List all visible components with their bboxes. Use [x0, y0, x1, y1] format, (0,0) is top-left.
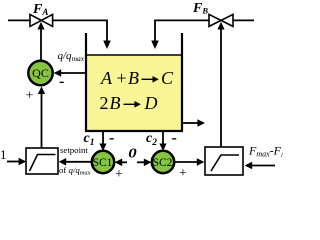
wire: QC up to valve FA: [40, 29, 42, 61]
summator SC1: [92, 151, 114, 173]
limiter curve 1: [30, 155, 56, 172]
arrowhead: feed B into reactor: [151, 41, 159, 50]
svg-text:SC2: SC2: [153, 157, 173, 169]
svg-text:setpoint: setpoint: [60, 145, 88, 155]
arrowhead: into limiter box 2 right: [245, 162, 253, 170]
svg-text:1: 1: [0, 147, 7, 162]
svg-text:-: -: [59, 73, 64, 90]
reactor liquid: [87, 55, 181, 131]
svg-text:A: A: [100, 68, 113, 88]
valve FA (bowtie): [30, 14, 41, 26]
svg-text:0: 0: [128, 146, 137, 161]
svg-text:+: +: [117, 68, 127, 88]
wire: valve FB to reactor feed corner: [155, 20, 209, 41]
summator SC2: [152, 151, 174, 173]
wire: FB feed line from right edge: [233, 19, 254, 21]
wire: SC1 to limiter box 1: [66, 161, 92, 163]
reactor right wall: [181, 33, 183, 131]
arrowhead: into valve FA: [37, 22, 44, 30]
arrowhead: into SC1 right: [115, 159, 123, 167]
arrowhead: into SC2 top: [159, 144, 166, 152]
wire: valve FA to reactor feed corner: [53, 20, 107, 41]
svg-text:-: -: [172, 130, 177, 147]
wire: limiter box 2 up to valve FB: [220, 29, 222, 148]
wire: q/qmax measurement from reactor to QC: [61, 72, 86, 74]
svg-text:D: D: [144, 93, 158, 113]
svg-text:B: B: [128, 68, 139, 88]
limiter curve 2: [211, 155, 239, 171]
reactor liquid surface line: [86, 54, 182, 56]
arrowhead: into valve FB: [217, 22, 224, 30]
svg-text:C: C: [161, 68, 174, 88]
arrowhead: into limiter box 1 left: [19, 158, 27, 166]
valve FB (bowtie): [209, 14, 221, 26]
wire: SC2 to limiter box 2: [175, 161, 197, 163]
wire: 0 to SC2: [137, 161, 144, 163]
arrowhead: into QC bottom: [38, 86, 45, 94]
wire: limiter box 1 up to QC: [41, 93, 43, 148]
limiter box 1: [26, 148, 58, 174]
arrowhead: into limiter box 1 right: [59, 158, 67, 166]
controller QC: [28, 61, 52, 85]
svg-text:+: +: [115, 167, 123, 178]
limiter box 2: [205, 147, 243, 175]
arrowhead: into SC1 top: [99, 144, 106, 152]
svg-text:B: B: [110, 93, 121, 113]
wire: 1 into limiter box 1: [7, 161, 19, 163]
svg-text:QC: QC: [32, 66, 49, 80]
arrowhead: into SC2 left: [144, 159, 152, 167]
svg-text:-: -: [109, 130, 114, 147]
arrowhead: feed A into reactor: [103, 41, 111, 50]
arrowhead: into QC right: [54, 69, 62, 77]
svg-text:2: 2: [100, 93, 109, 113]
reactor left wall: [85, 33, 87, 131]
svg-text:+: +: [179, 166, 187, 178]
wire: Fmax-FA into limiter box 2: [252, 165, 275, 167]
reactor bottom wall: [85, 130, 183, 132]
wire: c2 from reactor bottom to SC2: [162, 131, 164, 144]
wire: FA feed line from left edge: [8, 19, 31, 21]
arrowhead: outflow: [197, 119, 205, 127]
wire: 0 to SC1: [122, 161, 127, 163]
wire: reactor outflow: [182, 122, 198, 124]
svg-text:+: +: [26, 89, 34, 104]
arrowhead: into limiter box 2 left: [197, 158, 205, 166]
svg-text:SC1: SC1: [93, 157, 113, 169]
wire: c1 from reactor bottom to SC1: [102, 131, 104, 144]
